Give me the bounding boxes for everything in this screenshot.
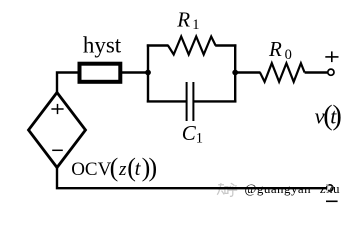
svg-text:): ) [149, 153, 158, 182]
plus sign terminal [325, 51, 338, 62]
wire: left vertical of RC pair [147, 44, 149, 102]
minus sign inside source [52, 149, 63, 151]
wire: top branch right [215, 44, 236, 46]
minus sign terminal [326, 200, 338, 202]
wire: R0 to positive terminal [305, 71, 328, 73]
resistor R1 [168, 37, 216, 55]
watermark glyph hu [228, 183, 237, 196]
node right junction [232, 70, 238, 76]
svg-text:R: R [268, 37, 282, 61]
capacitor C1 [187, 82, 194, 121]
svg-text:): ) [333, 101, 342, 132]
svg-text:z: z [118, 159, 127, 180]
wire: right vertical of RC pair [234, 44, 236, 102]
svg-text:1: 1 [196, 131, 203, 147]
svg-text:R: R [176, 7, 190, 31]
plus sign inside source [51, 104, 63, 114]
wire: top-left corner to hyst [57, 73, 79, 95]
terminal + (open circle) [328, 69, 334, 75]
wire: bottom branch right [193, 100, 236, 102]
svg-text:1: 1 [192, 17, 199, 33]
terminal - (open circle) [327, 185, 333, 191]
svg-text:OCV: OCV [71, 159, 111, 180]
wire: source bottom to bottom rail [57, 167, 326, 189]
watermark zhihu logo glyph zhi [217, 183, 228, 195]
node left junction [145, 70, 151, 76]
svg-text:(: ( [110, 153, 119, 182]
dependent source OCV (diamond) [29, 93, 86, 168]
watermark h-stem showing through terminal circle [329, 186, 333, 192]
svg-text:C: C [182, 121, 197, 145]
wire: right node to R0 [235, 71, 260, 73]
svg-text:hyst: hyst [83, 33, 122, 58]
wire: top branch left [147, 44, 169, 46]
svg-text:0: 0 [285, 47, 292, 63]
hyst block [80, 64, 121, 82]
resistor R0 [260, 63, 305, 82]
wire: bottom branch left [147, 100, 187, 102]
wire: hyst to left node [121, 71, 148, 73]
